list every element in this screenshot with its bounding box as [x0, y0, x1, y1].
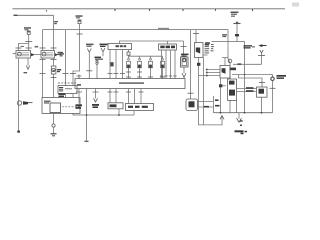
line E horizontal — [233, 63, 262, 65]
wire: bracket to relay K1 left pin — [19, 44, 29, 51]
ground connector circle G2 — [271, 77, 274, 80]
connector tick on x42.5 — [40, 47, 46, 49]
page number label (top right) — [292, 3, 299, 7]
down arrow from bus2 at x239 (to MIL) — [237, 113, 242, 123]
arrow up at x222 under bus2 — [220, 116, 224, 120]
connector label C436 below arrow — [92, 104, 99, 108]
wire: box E bottom to bottom bus — [133, 111, 135, 116]
label AT left of x65.5 — [58, 52, 64, 55]
connector ticks above relay K1 — [16, 47, 32, 49]
wire: line C tap x190.5 down to coil unit B5 — [190, 30, 192, 99]
injector feed rail — [129, 55, 163, 57]
wire: relay K2 left pin down with arrow — [40, 58, 46, 98]
ECM pin labels right — [205, 44, 215, 53]
wire: relay K1 to relay K2 — [35, 54, 41, 56]
relay K3 box — [58, 86, 77, 94]
wire: relay K2 right pin down to diode — [51, 58, 57, 66]
connector tick x196 — [193, 33, 199, 35]
injector INJ3 — [149, 56, 153, 78]
tiny labels above relay K1 — [21, 46, 38, 48]
motor unit M1 box — [257, 87, 268, 97]
labels right of x213.5 — [215, 99, 220, 106]
dark motor symbol inside M1 — [259, 89, 265, 94]
relay K1 contact (dark) — [31, 53, 35, 56]
label right of line D corner (2 rows) — [244, 45, 256, 48]
dark element inside ECM — [196, 48, 200, 54]
arrow down at x103 — [101, 48, 105, 56]
wires: x128.5, x134.5, x141 below B3 into box E — [126, 89, 144, 104]
chain x183.5: feed line corner down — [183, 41, 185, 56]
wires: B5 right side two rows to x213.5 — [198, 102, 214, 108]
line G horizontal — [232, 74, 273, 76]
dark text blocks inside T1 — [229, 81, 235, 96]
label: fuse No. (left top) — [24, 27, 31, 30]
dashed line inside B4 — [62, 106, 80, 108]
wire: line C corner down to relay K2 left pin — [42, 30, 44, 51]
arrow label pointing left at x259 — [258, 44, 266, 47]
bulb/lamp symbol on chain (circle) — [228, 59, 232, 63]
wire: x228.5 from line C down to transistor box T1 — [228, 30, 230, 79]
label M- mid chain x97 — [95, 57, 104, 60]
wire: line C tap at x79.5 down, jog to x73, into relay K3 — [73, 30, 80, 86]
wire: x86.5 below B3 to bottom bus and ground G3 — [86, 89, 88, 141]
main control box BL (left) — [108, 44, 132, 50]
label right of G2 (2 rows) — [277, 75, 287, 79]
wire: corner x244.5 down from line D to bus2 — [244, 42, 246, 113]
label on B5 lower row — [204, 106, 209, 108]
fuse F2 symbol at x79.5 — [78, 20, 81, 30]
wire: x89.3 down to junction box B3 — [88, 52, 90, 78]
wire: feed drop into box BR — [167, 41, 169, 44]
wires: T1 bottom pins to bus2 — [230, 101, 237, 113]
wire: Q1 connector rows (3) — [207, 70, 220, 76]
splice blob on x198.5 — [197, 63, 200, 66]
wire: tap x79 from line? down into B3 top — [77, 75, 82, 79]
dark wire label on x230 — [230, 68, 237, 71]
relay K3 coil hatch (dark) — [59, 87, 72, 91]
connector tick on G2 chain — [270, 87, 276, 89]
wire: box F bottom pin to bottom bus — [118, 109, 120, 115]
label: fuse No. above line C at x79 — [76, 15, 83, 18]
wire: vertical from second bus at x53.5 down to relay K2 — [53, 15, 55, 50]
connector ticks under injectors — [126, 72, 165, 77]
wire labels on T1-M1 rows — [246, 87, 254, 92]
connector circle on x53.5 — [52, 124, 55, 127]
ground G3 dash — [85, 140, 89, 142]
wire: fuse F1 to relay K1 right pin — [28, 34, 30, 50]
relay K2 contact (dark) — [55, 53, 59, 56]
label on line D left end — [205, 42, 210, 45]
ignition switch box Q1 — [220, 66, 230, 79]
box BR (right, dark text) — [159, 44, 177, 50]
wires: T1 right to M1 (two rows with labels) — [237, 89, 257, 92]
wire: riser x213.5 — [213, 96, 215, 113]
wire: bus left riser to B4 area — [72, 114, 74, 116]
dark connector label at bottom of x79 — [76, 104, 83, 109]
sensor component S1 on x183.5 (box with circle) — [181, 57, 189, 67]
injector INJ2 — [138, 56, 142, 78]
connector ticks on BR pins — [160, 75, 177, 77]
label dash under arrow x28 — [24, 72, 28, 73]
wire: relay K3 pins down into box B4 — [66, 94, 74, 98]
wire: diode D1 down to sensor box B4 — [51, 74, 57, 98]
connector tick x79.5 at y34 — [77, 33, 83, 35]
line F horizontal with corner at x262 — [239, 75, 263, 83]
wire: x261.5 down to line E corner — [261, 53, 263, 64]
junction ticks on top bus — [47, 9, 253, 11]
wire: BL top jog to feed line (y41) — [120, 41, 184, 44]
label inside B4 — [44, 101, 51, 104]
wire: hot-in-START bus (line C) — [43, 29, 229, 31]
stub right on x198.5 at y75.5 — [199, 75, 208, 77]
text inside BL — [116, 45, 127, 47]
Y arrow top of x261.5 — [260, 50, 263, 53]
wire: S1 down with arrow into B3 — [182, 67, 186, 78]
arrow down at x89 — [87, 49, 91, 53]
dark text inside BR — [160, 46, 175, 49]
wire: Q1 top pin — [222, 58, 228, 66]
ECM box U1 — [195, 43, 204, 58]
bus2 (bottom right bus) — [214, 112, 273, 114]
connector tick x73 — [70, 73, 76, 75]
dark capacitor blob on pin x112 — [110, 62, 113, 66]
box E (connector strip) — [126, 104, 154, 111]
connector tick on x53.5 — [51, 47, 57, 49]
dark dashes inside box E — [128, 106, 148, 108]
schematic wiring layer — [13, 3, 300, 142]
injector INJ4 — [161, 56, 165, 78]
dark block inside B5 — [189, 101, 195, 107]
wire: line C tap at x65.5 down to relay K3 — [65, 30, 67, 86]
dark label on x183.5 — [181, 54, 189, 57]
wire: x79 below B3 with label — [76, 89, 82, 104]
wire: relay K1 right pin down with arrow — [26, 58, 29, 69]
connector tick on x28.7 at y41.5 — [25, 41, 32, 43]
inner element of B4 — [50, 103, 61, 113]
splice blob on x220.5 — [219, 84, 226, 87]
wire label arrow chain at x89 (text + down arrow) — [86, 44, 94, 47]
connector tick x190.5 — [188, 92, 194, 94]
ECM stub right — [203, 54, 208, 56]
wire: B4 bottom pin down to ground G1 — [53, 114, 55, 134]
wire: relay K1 left pin down (long run to ground blob) — [18, 58, 20, 131]
connector tick x261.5 — [258, 55, 265, 57]
connector tick x262 at y82.5 — [259, 83, 265, 88]
junction dot line G x244.5 — [244, 74, 246, 76]
wire label arrow chain at x103 — [100, 44, 108, 47]
label right of relay K2 — [60, 53, 65, 56]
inline connector at x97 — [96, 60, 98, 64]
box B4 (sensor unit) — [42, 98, 80, 114]
wire stub left of relay K1 — [13, 53, 17, 55]
box F (oil pressure switch) — [108, 103, 123, 109]
transistor box T1 — [228, 79, 237, 101]
relay K1 coil — [17, 52, 29, 56]
label right of diode D1 — [57, 69, 61, 72]
diode unit D1 on x53.5 — [51, 66, 56, 74]
wire: x95.5 below B3 with arrow — [93, 89, 99, 103]
connector tick x65.5 — [63, 73, 69, 75]
label smudge on line C — [158, 28, 169, 29]
wire: hot-in-ON bus (second, left) — [14, 14, 54, 16]
label right of T tap (fuse name) — [231, 12, 239, 17]
power tap T symbol at x237 — [234, 23, 241, 42]
relay K1 (main relay) box — [16, 51, 31, 59]
small marks bottom left of MIL area — [240, 120, 244, 134]
dark contact inside Q1 — [222, 68, 226, 74]
splice blob bottom of x18.5 — [17, 131, 20, 133]
wires: x110,x116 below B3 into box F — [108, 89, 119, 103]
ignition switch symbol left bottom (circle + arm) — [17, 101, 21, 105]
BL pin 4 with resistor square — [127, 50, 130, 57]
relay K2 (fuel pump relay) box — [41, 51, 55, 59]
connector tick x183.5 — [181, 46, 187, 48]
wire: ECM pin x203.5 down to bottom wire — [203, 58, 205, 125]
ground G1 symbol — [51, 134, 57, 136]
coil unit B5 (rounded box) — [186, 99, 198, 111]
relay K2 coil — [42, 52, 53, 56]
connector ticks on BL pins — [108, 73, 126, 75]
wire: line C tap x196 into ECM top — [195, 30, 197, 43]
dark text inside box F — [110, 104, 117, 107]
junction dots on bus2 — [220, 112, 263, 114]
connector bumps on Q1 rows — [206, 69, 208, 77]
dark arm of switch — [23, 101, 33, 105]
dark label MIL below arrow — [235, 130, 248, 132]
text row inside B3 — [77, 82, 144, 86]
label above line C end — [222, 34, 227, 37]
wire: x97 down to junction box B3 — [96, 64, 98, 78]
wires: BR pins down to junction box B3 — [162, 50, 176, 79]
connector tick x89.3 — [86, 70, 92, 72]
wire: G2 down to bus2 corner — [272, 81, 274, 113]
wire: ECM bottom pin x198.5 long run — [199, 58, 223, 125]
tick on line E — [238, 63, 242, 65]
injector INJ1 — [127, 56, 131, 78]
dashed connector row above relay K3 — [58, 82, 77, 84]
dark label under relay K3 — [59, 93, 66, 97]
label: wire color right of x53.5 — [54, 21, 58, 24]
bottom bus wire — [73, 114, 134, 116]
wire: M1 bottom pin to bus2 — [261, 97, 263, 113]
junction dots bottom bus — [86, 114, 120, 116]
wire: hot-at-all-times bus (top) — [13, 8, 286, 10]
fuse F1 symbol at x28.7 — [27, 31, 30, 34]
connector blob on x237 — [235, 34, 239, 36]
junction connector box B3 (long) — [75, 79, 185, 89]
wire: Q1 bottom pin to bus2 with splice — [220, 78, 222, 113]
line D (y41.5 right feed) — [212, 41, 245, 43]
wire: ground chain corner from line G to circle G2 — [272, 75, 274, 78]
wires: BL pins 1-3 down to junction box B3 — [110, 50, 123, 79]
